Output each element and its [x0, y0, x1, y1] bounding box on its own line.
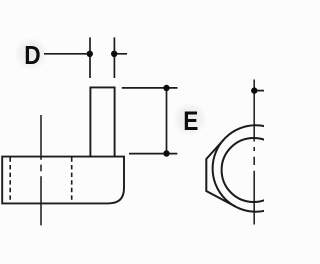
D dimension dot left	[87, 51, 93, 57]
E dimension dot top	[163, 85, 169, 91]
svg-text:D: D	[24, 42, 40, 71]
label halo D	[14, 37, 48, 71]
label halo E	[173, 102, 207, 136]
hidden line left	[9, 157, 11, 202]
D dimension line	[44, 53, 127, 55]
E bottom extension line	[129, 153, 177, 155]
E dimension line	[166, 88, 168, 154]
stem (boss) on body	[90, 87, 114, 156]
end-view outer circle	[213, 125, 299, 211]
hidden line right	[71, 157, 73, 202]
E dimension dot bottom	[163, 150, 169, 156]
end-view vertical centerline	[253, 80, 255, 225]
top-right dimension dot	[251, 87, 257, 93]
end-view inner circle	[222, 138, 286, 202]
end-view hex flat and chamfer edges	[206, 140, 235, 207]
side-view body outline	[2, 157, 124, 204]
D extension line left	[89, 37, 91, 78]
D dimension dot right	[111, 51, 117, 57]
top-right dimension line stub	[257, 90, 264, 92]
vertical centerline through body	[40, 115, 42, 225]
D extension line right	[113, 37, 115, 78]
svg-text:E: E	[183, 106, 198, 136]
E top extension line	[122, 87, 178, 89]
